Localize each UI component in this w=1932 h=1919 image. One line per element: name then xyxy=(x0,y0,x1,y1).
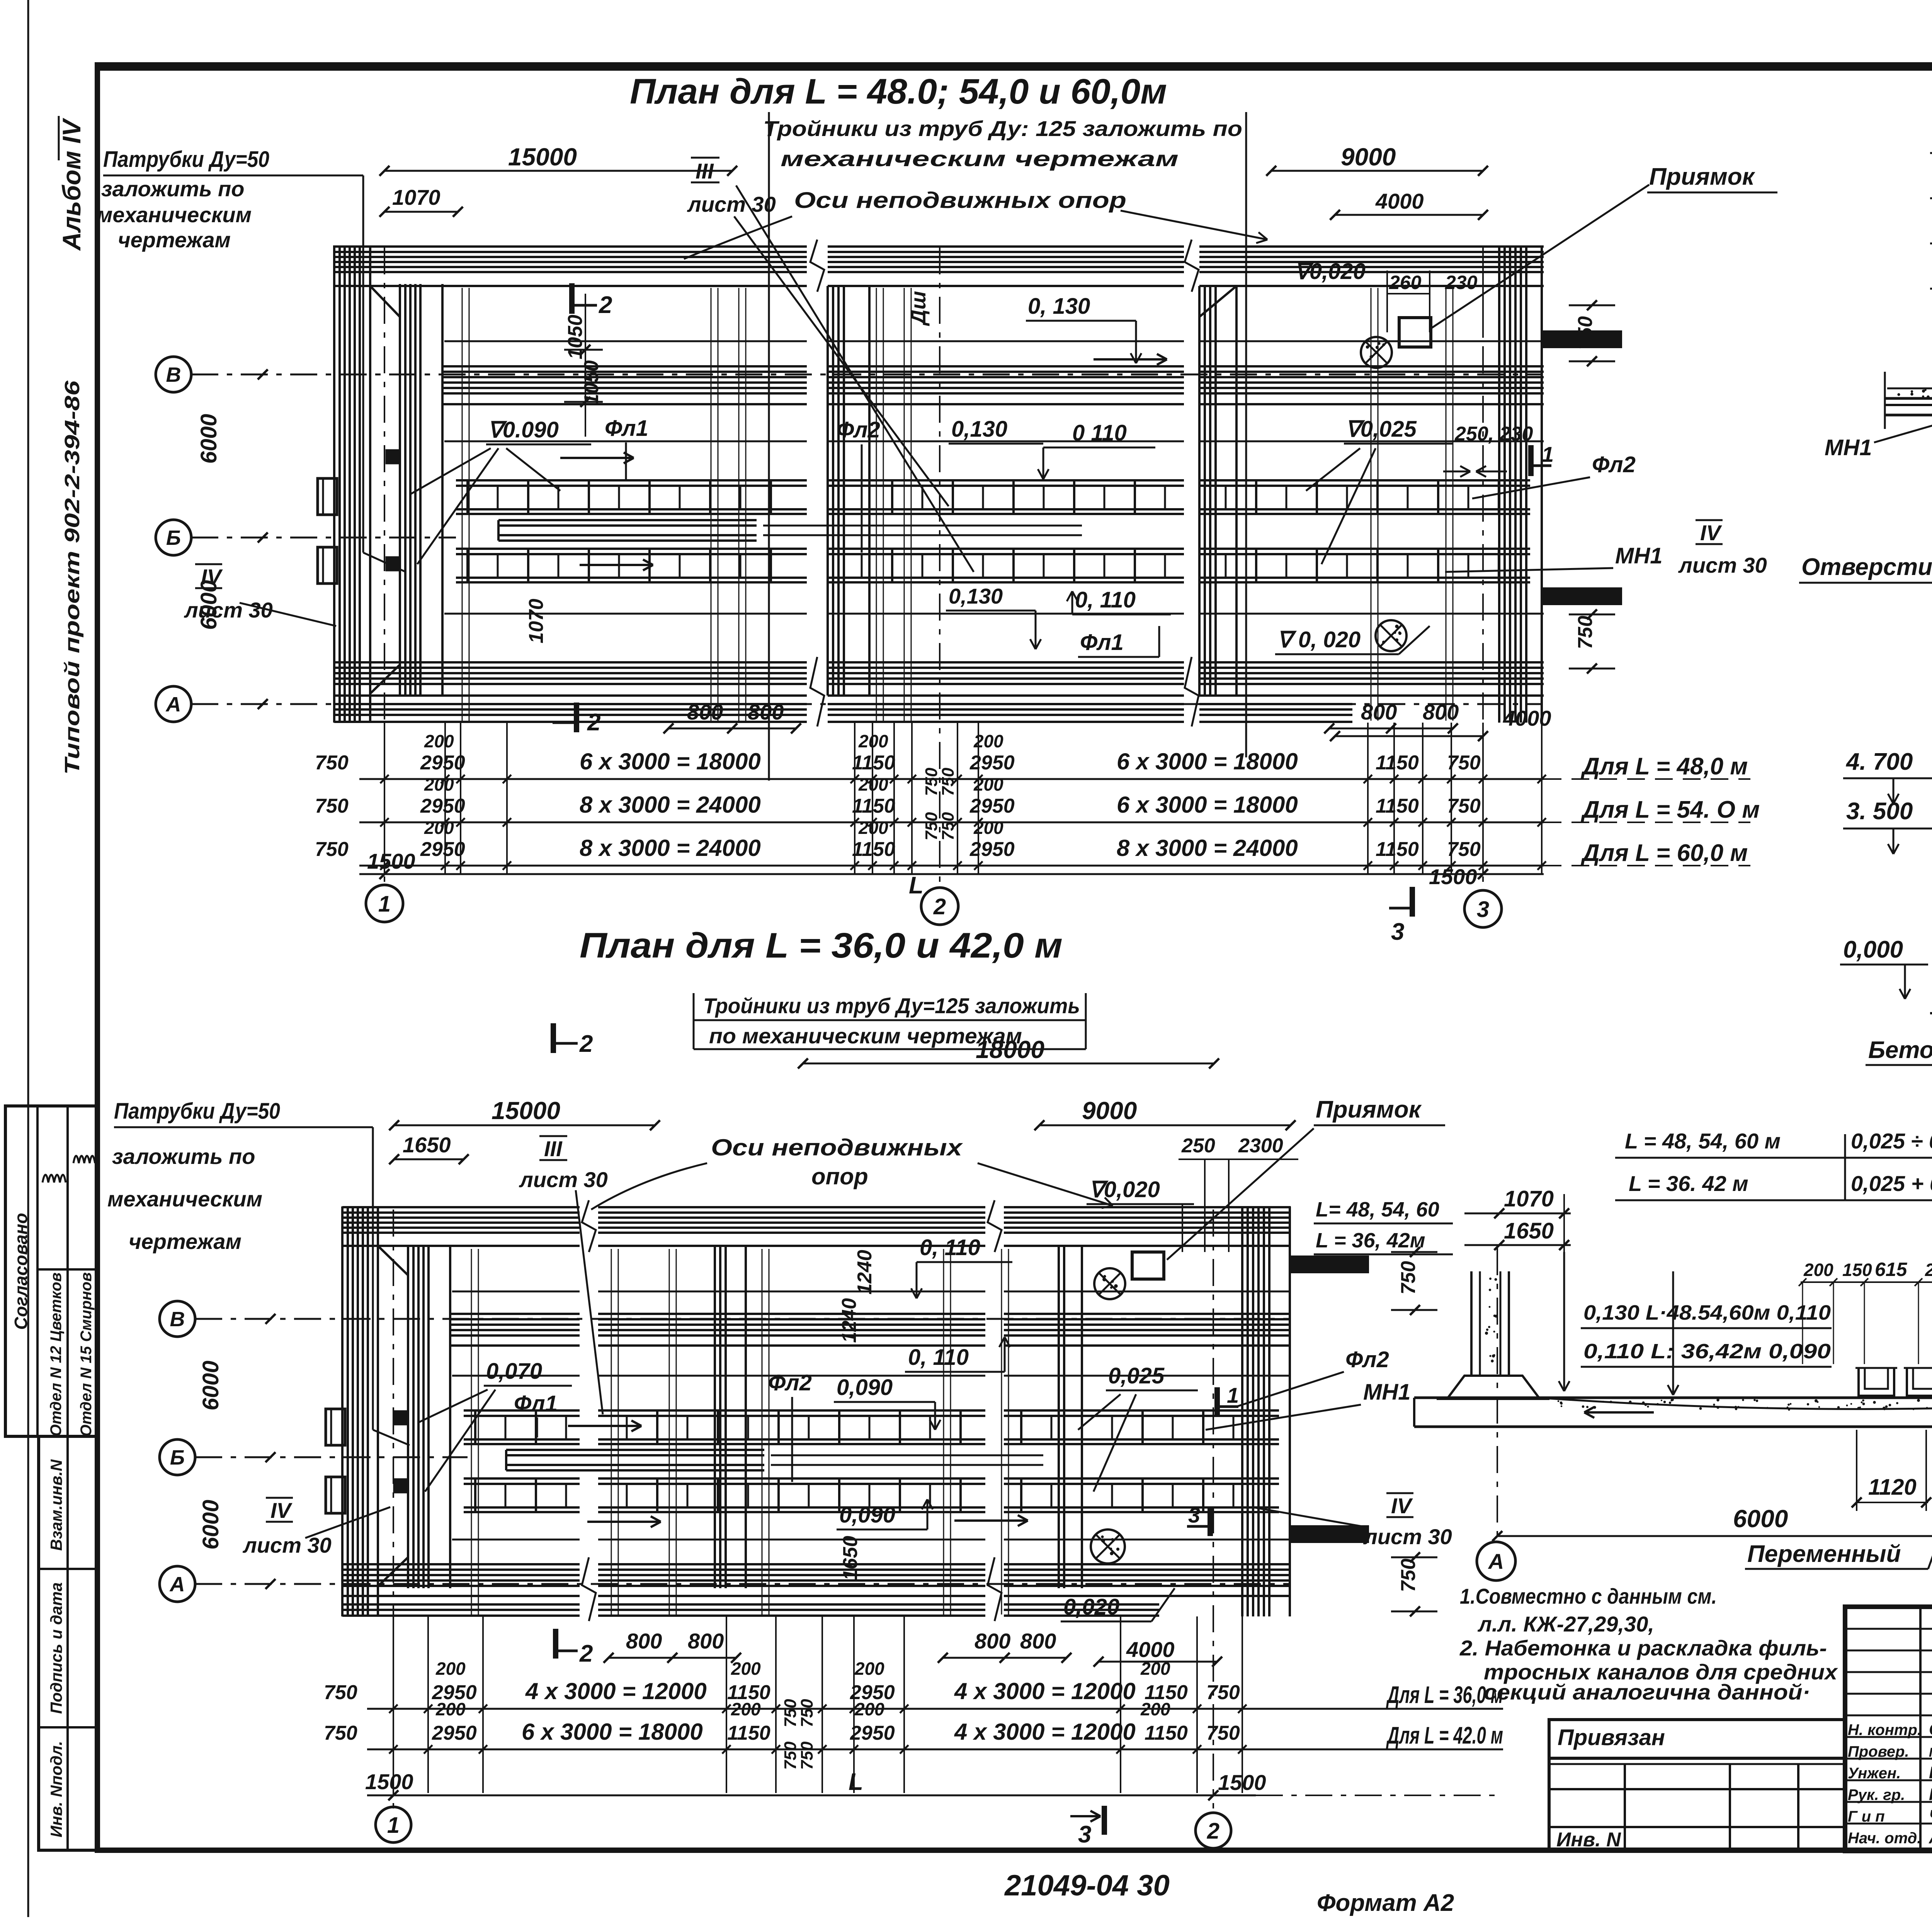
plan 1 channel row2 end flange left xyxy=(318,547,337,584)
svg-text:750: 750 xyxy=(781,1699,800,1727)
plan 1 left inner wall xyxy=(399,284,401,696)
svg-text:2: 2 xyxy=(1207,1819,1219,1844)
plan 1 corridor dash axis lower xyxy=(444,613,807,615)
svg-text:8 x 3000 = 24000: 8 x 3000 = 24000 xyxy=(580,792,761,818)
svg-text:1150: 1150 xyxy=(852,795,895,817)
svg-text:IV: IV xyxy=(1700,521,1723,545)
svg-text:250: 250 xyxy=(1181,1135,1215,1157)
svg-text:2. Набетонка и раскладка филь-: 2. Набетонка и раскладка филь- xyxy=(1459,1636,1827,1660)
svg-text:4 x 3000 = 12000: 4 x 3000 = 12000 xyxy=(954,1719,1136,1745)
plan 2 internal support verticals xyxy=(611,1249,612,1614)
svg-text:1150: 1150 xyxy=(852,752,895,774)
plan 2 chain row L=42 xyxy=(367,1749,1503,1751)
svg-text:Бетон М-150: Бетон М-150 xyxy=(1868,1037,1932,1063)
plan 2 flange circle top xyxy=(1094,1268,1125,1299)
plan 1 anchor square row1 xyxy=(386,450,400,463)
svg-text:615: 615 xyxy=(1875,1259,1908,1280)
svg-text:3. 500: 3. 500 xyxy=(1846,798,1913,825)
svg-text:2: 2 xyxy=(933,894,946,919)
svg-text:1150: 1150 xyxy=(1376,838,1419,861)
svg-text:200: 200 xyxy=(424,774,454,794)
plan 2 right inner bundle xyxy=(1058,1246,1060,1588)
plan 1 section mark 2 top xyxy=(569,283,575,314)
plan 2 axis lines xyxy=(195,1318,1291,1320)
svg-text:200: 200 xyxy=(1803,1260,1833,1280)
svg-text:2950: 2950 xyxy=(969,795,1015,817)
svg-text:Оси неподвижных опор: Оси неподвижных опор xyxy=(794,188,1126,213)
svg-text:6 x 3000 = 18000: 6 x 3000 = 18000 xyxy=(1117,749,1298,774)
svg-text:1: 1 xyxy=(1542,442,1554,466)
svg-text:9000: 9000 xyxy=(1082,1097,1137,1125)
svg-text:механическим: механическим xyxy=(107,1187,262,1211)
plan 1 aerator channel row 2 xyxy=(456,548,807,550)
plan 1 column circle 3 xyxy=(1464,890,1502,927)
plan 1 chain row L=54 xyxy=(359,822,1544,823)
svg-text:750: 750 xyxy=(315,795,349,817)
plan 2 central divider xyxy=(506,1449,764,1451)
svg-text:Тройники из труб Ду=125 заложи: Тройники из труб Ду=125 заложить xyxy=(703,994,1080,1018)
svg-text:200: 200 xyxy=(854,1699,884,1719)
svg-text:L: L xyxy=(849,1769,863,1795)
svg-text:Б: Б xyxy=(170,1446,185,1469)
svg-text:2: 2 xyxy=(587,709,600,736)
plan 2 dim 800 800 right xyxy=(943,1657,1066,1659)
plan 1 axis circle В xyxy=(156,357,191,392)
svg-text:Тройники из труб Ду: 125 зало: Тройники из труб Ду: 125 заложить по xyxy=(763,116,1242,141)
svg-text:Гарбуз: Гарбуз xyxy=(1929,1785,1932,1804)
svg-text:200: 200 xyxy=(973,818,1003,838)
svg-text:Н. контр.: Н. контр. xyxy=(1848,1722,1922,1739)
plan 1 wall band B xyxy=(442,365,807,367)
svg-text:L = 36, 42м: L = 36, 42м xyxy=(1316,1229,1425,1252)
plan 2 axis circle В xyxy=(160,1301,195,1337)
svg-text:1070: 1070 xyxy=(392,185,440,209)
svg-text:1650: 1650 xyxy=(839,1536,862,1580)
svg-text:750: 750 xyxy=(315,752,349,774)
svg-text:4000: 4000 xyxy=(1375,189,1424,213)
svg-text:200: 200 xyxy=(1140,1659,1170,1679)
svg-text:Для L = 48,0 м: Для L = 48,0 м xyxy=(1580,753,1748,780)
svg-text:1070: 1070 xyxy=(525,599,548,643)
svg-text:1240: 1240 xyxy=(854,1250,876,1295)
svg-text:Фл2: Фл2 xyxy=(1592,452,1636,477)
svg-text:1150: 1150 xyxy=(727,1722,770,1744)
plan 1 axis lines xyxy=(191,374,1542,376)
plan 2 column circle 2 xyxy=(1196,1813,1231,1848)
svg-text:0,025: 0,025 xyxy=(1108,1363,1165,1388)
plan 1 chain row L=48 xyxy=(359,778,1544,780)
svg-text:1500: 1500 xyxy=(1218,1770,1266,1795)
svg-text:заложить по: заложить по xyxy=(112,1144,255,1169)
svg-text:1240: 1240 xyxy=(838,1298,861,1343)
svg-text:200: 200 xyxy=(973,731,1003,751)
svg-text:200: 200 xyxy=(854,1659,884,1679)
svg-text:0,025 + 0,070: 0,025 + 0,070 xyxy=(1851,1171,1932,1196)
svg-text:по механическим чертежам: по механическим чертежам xyxy=(709,1024,1022,1048)
plan 1 priamok square xyxy=(1399,318,1431,347)
svg-text:Г и п: Г и п xyxy=(1848,1808,1885,1825)
svg-text:750: 750 xyxy=(324,1681,357,1704)
svg-text:800: 800 xyxy=(1423,700,1459,724)
svg-text:Патрубки Ду=50: Патрубки Ду=50 xyxy=(114,1099,280,1124)
plan 1 axis circle А xyxy=(156,686,191,722)
svg-text:Семенова: Семенова xyxy=(1929,1720,1932,1739)
svg-text:0,000: 0,000 xyxy=(1843,936,1903,963)
svg-text:6000: 6000 xyxy=(1733,1505,1788,1533)
lotok rows xyxy=(1930,152,1932,154)
svg-text:А: А xyxy=(1488,1549,1504,1574)
plan 1 left end wall xyxy=(333,245,335,723)
plan 2 overall L line xyxy=(367,1795,1256,1797)
plan 1 dim 1070 xyxy=(384,211,458,213)
plan 2 right end wall xyxy=(1241,1206,1243,1616)
svg-text:Фл2: Фл2 xyxy=(768,1370,812,1395)
svg-text:IV: IV xyxy=(201,565,223,589)
plan 2 break marks top xyxy=(582,1200,596,1252)
svg-text:2950: 2950 xyxy=(420,795,465,817)
svg-text:800: 800 xyxy=(975,1629,1010,1653)
plan 1 section mark 1 right xyxy=(1528,445,1534,476)
plan 1 chain row L=60 xyxy=(359,865,1544,867)
plan 2 inlet pipe bottom right xyxy=(1291,1526,1368,1542)
plan 2 section mark 1 right xyxy=(1214,1387,1220,1416)
plan 1 dim 15000 xyxy=(384,170,732,172)
svg-text:Инв. Nподл.: Инв. Nподл. xyxy=(47,1741,65,1837)
svg-text:IV: IV xyxy=(1391,1494,1413,1518)
svg-text:0,110 L: 36,42м 0,090: 0,110 L: 36,42м 0,090 xyxy=(1583,1340,1831,1363)
svg-text:лист 30: лист 30 xyxy=(184,598,273,622)
plan 1 dim 4000 right xyxy=(1335,735,1483,737)
sheet edge line xyxy=(27,0,29,1917)
svg-text:15000: 15000 xyxy=(508,143,577,171)
plan 2 middle wall bundle xyxy=(714,1246,716,1588)
svg-text:Провер.: Провер. xyxy=(1848,1743,1909,1760)
svg-text:Согласовано: Согласовано xyxy=(11,1213,31,1330)
svg-text:800: 800 xyxy=(748,700,784,724)
2-2 flow arrows xyxy=(1584,1411,1654,1414)
svg-text:800: 800 xyxy=(1020,1629,1056,1653)
svg-text:Фл1: Фл1 xyxy=(514,1391,558,1416)
svg-text:750: 750 xyxy=(922,812,941,840)
margin stamp strip xyxy=(39,1436,97,1850)
2-2 base slab xyxy=(1414,1397,1932,1399)
svg-text:Привязан: Привязан xyxy=(1558,1725,1665,1750)
plan 1 aerator channel row 1 xyxy=(456,479,807,481)
plan 1 corridor dash axis mid xyxy=(444,441,807,442)
svg-text:L = 48, 54, 60 м: L = 48, 54, 60 м xyxy=(1625,1129,1781,1153)
svg-text:МН1: МН1 xyxy=(1615,543,1662,568)
2-2 axis circle A xyxy=(1477,1542,1515,1580)
svg-text:1120: 1120 xyxy=(1868,1475,1917,1500)
svg-text:4 x 3000 = 12000: 4 x 3000 = 12000 xyxy=(954,1678,1136,1704)
svg-text:Рук. гр.: Рук. гр. xyxy=(1848,1786,1905,1803)
plan 2 priamok square xyxy=(1132,1252,1164,1279)
svg-text:3: 3 xyxy=(1391,919,1404,945)
svg-text:200: 200 xyxy=(1140,1699,1170,1719)
svg-text:2950: 2950 xyxy=(420,752,465,774)
svg-text:∇0.090: ∇0.090 xyxy=(488,417,559,442)
plan 1 top wall band xyxy=(334,245,807,248)
svg-text:лист 30: лист 30 xyxy=(242,1533,332,1557)
svg-text:200: 200 xyxy=(424,731,454,751)
svg-text:260: 260 xyxy=(1389,272,1422,293)
plan 1 right end wall xyxy=(1498,245,1500,723)
plan 1 corridor dash axis upper xyxy=(444,340,807,342)
svg-text:лист 30: лист 30 xyxy=(1363,1524,1452,1549)
svg-text:2950: 2950 xyxy=(969,838,1015,861)
svg-text:Для L = 54. О м: Для L = 54. О м xyxy=(1580,796,1760,823)
svg-text:2950: 2950 xyxy=(432,1722,477,1744)
svg-text:А: А xyxy=(165,693,181,716)
svg-text:750: 750 xyxy=(1447,795,1481,817)
plan 2 dim 1650 xyxy=(394,1159,464,1160)
plan 1 inlet pipe bottom right xyxy=(1544,589,1621,604)
plan 2 corridor dash lower xyxy=(452,1539,580,1541)
svg-text:4000: 4000 xyxy=(1503,706,1551,730)
plan 2 aerator channel row 2 xyxy=(464,1477,580,1480)
plan 2 left inner wall xyxy=(407,1246,409,1588)
svg-text:механическим чертежам: механическим чертежам xyxy=(781,146,1179,171)
plan 1 dim 800 800 right xyxy=(1329,728,1453,730)
svg-text:0,070: 0,070 xyxy=(486,1359,542,1384)
svg-text:1500: 1500 xyxy=(367,849,415,873)
plan 1 column circle 2 xyxy=(921,888,958,925)
plan 2 flange circle bottom xyxy=(1091,1529,1125,1563)
svg-text:0, 110: 0, 110 xyxy=(920,1235,980,1260)
svg-text:L= 48, 54, 60: L= 48, 54, 60 xyxy=(1316,1198,1439,1221)
plan 1 bottom wall band A xyxy=(334,661,807,663)
svg-text:200: 200 xyxy=(435,1699,466,1719)
svg-text:1150: 1150 xyxy=(1376,752,1419,774)
svg-text:15000: 15000 xyxy=(492,1097,560,1125)
plan 2 column circle 1 xyxy=(376,1807,411,1842)
svg-text:Типовой проект 902-2-394-86: Типовой проект 902-2-394-86 xyxy=(61,380,84,775)
2-2 axis lines xyxy=(1497,1248,1498,1542)
svg-text:2: 2 xyxy=(599,292,612,318)
svg-text:750: 750 xyxy=(798,1699,816,1727)
svg-text:∇0,020: ∇0,020 xyxy=(1089,1177,1160,1202)
svg-text:200: 200 xyxy=(858,774,888,794)
plan 1 right section left bundle xyxy=(1198,286,1201,696)
plan 1 break marks bottom xyxy=(810,657,824,726)
svg-text:150: 150 xyxy=(1842,1260,1872,1280)
svg-text:250, 230: 250, 230 xyxy=(1454,423,1533,445)
svg-text:Фл2: Фл2 xyxy=(1345,1347,1389,1372)
svg-text:Петропавловская: Петропавловская xyxy=(1929,1745,1932,1759)
plan 2 axis witness xyxy=(393,1210,394,1808)
svg-text:750: 750 xyxy=(939,767,957,796)
plan 1 inlet pipe top right xyxy=(1544,332,1621,347)
plan 2 chain row L=36 xyxy=(367,1708,1503,1710)
section 1-1 ground slab xyxy=(1885,397,1932,400)
svg-text:750: 750 xyxy=(315,838,349,861)
svg-text:750: 750 xyxy=(1397,1261,1420,1295)
svg-text:А: А xyxy=(169,1573,185,1596)
svg-text:заложить по: заложить по xyxy=(101,177,244,201)
svg-text:0,130: 0,130 xyxy=(951,417,1007,442)
svg-text:∇ 0, 020: ∇ 0, 020 xyxy=(1277,627,1361,652)
svg-text:6 x 3000 = 18000: 6 x 3000 = 18000 xyxy=(580,749,761,774)
plan 2 section mark 3 xyxy=(1207,1507,1213,1536)
svg-text:L = 36. 42 м: L = 36. 42 м xyxy=(1629,1171,1748,1196)
svg-text:Дш: Дш xyxy=(907,291,930,326)
svg-text:2300: 2300 xyxy=(1238,1135,1283,1157)
plan 1 axis circle Б xyxy=(156,520,191,555)
plan 2 dim 15000 xyxy=(394,1125,655,1126)
plan 1 middle wall bundle xyxy=(827,286,829,696)
plan 1 column circle 1 xyxy=(366,885,403,922)
svg-text:800: 800 xyxy=(688,1629,724,1653)
plan 2 inlet pipe top right xyxy=(1291,1257,1368,1272)
svg-text:750: 750 xyxy=(939,812,957,840)
svg-text:1150: 1150 xyxy=(1145,1722,1188,1744)
svg-text:Патрубки Ду=50: Патрубки Ду=50 xyxy=(103,147,269,172)
svg-text:200: 200 xyxy=(858,818,888,838)
svg-text:6000: 6000 xyxy=(198,1500,223,1550)
svg-text:6000: 6000 xyxy=(196,414,221,464)
svg-text:Цветкова: Цветкова xyxy=(1929,1763,1932,1782)
svg-text:Оси неподвижных: Оси неподвижных xyxy=(711,1135,963,1160)
svg-text:4 x 3000 = 12000: 4 x 3000 = 12000 xyxy=(525,1678,707,1704)
svg-text:1: 1 xyxy=(387,1813,400,1838)
svg-text:Чирков: Чирков xyxy=(1929,1807,1932,1825)
svg-text:0, 110: 0, 110 xyxy=(1075,587,1136,612)
svg-text:План для L = 36,0 и 42,0 м: План для L = 36,0 и 42,0 м xyxy=(580,926,1063,965)
svg-text:МН1: МН1 xyxy=(1825,435,1872,460)
plan 1 witness lines xyxy=(384,723,385,874)
plan 2 section mark 2 top xyxy=(551,1023,556,1053)
plan 1 channel row1 end flange left xyxy=(318,478,337,515)
plan 1 anchor square row2 xyxy=(386,557,400,570)
svg-text:∇0,025: ∇0,025 xyxy=(1345,417,1417,442)
svg-text:200: 200 xyxy=(424,818,454,838)
svg-text:3: 3 xyxy=(1477,897,1489,922)
svg-text:200: 200 xyxy=(435,1659,466,1679)
svg-text:IV: IV xyxy=(270,1498,293,1523)
svg-text:800: 800 xyxy=(1361,700,1397,724)
plan 1 flow arrows xyxy=(560,457,634,459)
plan 2 wall band B xyxy=(450,1313,580,1315)
svg-text:0, 130: 0, 130 xyxy=(1028,294,1090,319)
title block frame xyxy=(1845,1607,1932,1851)
svg-text:Отдел N 15 Смирнов: Отдел N 15 Смирнов xyxy=(78,1272,95,1436)
title block left grid xyxy=(1919,1607,1922,1851)
plan 2 corridor dash mid xyxy=(452,1375,580,1377)
svg-text:1150: 1150 xyxy=(1376,795,1419,817)
plan 1 axis witness dashdot xyxy=(384,247,385,885)
plan 1 dim 4000 xyxy=(1335,214,1483,216)
svg-text:лист 30: лист 30 xyxy=(519,1167,608,1192)
svg-text:2: 2 xyxy=(579,1640,593,1667)
svg-text:0,130 L·48.54,60м 0,110: 0,130 L·48.54,60м 0,110 xyxy=(1583,1301,1831,1324)
svg-text:L: L xyxy=(909,872,923,899)
svg-text:Альтшумер: Альтшумер xyxy=(1929,1828,1932,1847)
plan 1 dim 9000 xyxy=(1271,170,1483,172)
svg-text:Отдел N 12 Цветков: Отдел N 12 Цветков xyxy=(48,1273,65,1436)
svg-text:8 x 3000 = 24000: 8 x 3000 = 24000 xyxy=(580,835,761,861)
svg-text:3: 3 xyxy=(1078,1821,1091,1848)
plan 2 channel row1 flange xyxy=(326,1409,345,1445)
svg-text:750: 750 xyxy=(1206,1681,1240,1704)
plan 1 flange circle top xyxy=(1361,337,1392,368)
plan 2 flow arrows xyxy=(568,1425,641,1427)
svg-text:205: 205 xyxy=(1925,1260,1932,1280)
svg-text:∇0,020: ∇0,020 xyxy=(1294,259,1366,284)
svg-text:1500: 1500 xyxy=(1429,864,1477,889)
svg-text:1650: 1650 xyxy=(403,1133,451,1157)
svg-text:6 x 3000 = 18000: 6 x 3000 = 18000 xyxy=(522,1719,703,1745)
svg-text:2: 2 xyxy=(579,1031,593,1057)
svg-text:л.л. КЖ-27,29,30,: л.л. КЖ-27,29,30, xyxy=(1477,1612,1654,1636)
plan 2 anchor square row2 xyxy=(394,1479,407,1492)
svg-text:750: 750 xyxy=(1447,838,1481,861)
svg-text:6 x 3000 = 18000: 6 x 3000 = 18000 xyxy=(1117,792,1298,818)
svg-text:750: 750 xyxy=(922,767,941,796)
plan 2 section mark 3 bottom xyxy=(1102,1806,1107,1835)
svg-text:0 110: 0 110 xyxy=(1072,420,1127,446)
svg-text:200: 200 xyxy=(973,774,1003,794)
svg-text:Инв. N: Инв. N xyxy=(1556,1829,1621,1851)
svg-text:4. 700: 4. 700 xyxy=(1845,749,1913,775)
svg-text:750: 750 xyxy=(1206,1722,1240,1744)
svg-text:опор: опор xyxy=(811,1164,868,1189)
plan 2 bottom wall band A xyxy=(342,1563,580,1565)
svg-text:750: 750 xyxy=(1397,1558,1420,1592)
svg-text:750: 750 xyxy=(1574,316,1597,350)
svg-text:0,090: 0,090 xyxy=(839,1502,895,1528)
plan 2 axis circle Б xyxy=(160,1439,195,1475)
svg-text:1150: 1150 xyxy=(852,838,895,861)
svg-text:III: III xyxy=(696,159,714,183)
svg-text:750: 750 xyxy=(781,1741,800,1770)
svg-text:750: 750 xyxy=(798,1741,816,1770)
svg-text:18000: 18000 xyxy=(976,1036,1044,1063)
plan 2 axis circle А xyxy=(160,1566,195,1602)
svg-text:0,090: 0,090 xyxy=(837,1375,893,1400)
svg-text:лист 30: лист 30 xyxy=(1678,553,1767,577)
svg-text:800: 800 xyxy=(626,1629,662,1653)
svg-text:Фл2: Фл2 xyxy=(837,417,880,442)
svg-text:21049-04 30: 21049-04 30 xyxy=(1004,1869,1170,1902)
svg-text:III: III xyxy=(544,1136,563,1161)
svg-text:Б: Б xyxy=(166,526,181,550)
svg-text:Подпись и дата: Подпись и дата xyxy=(47,1582,65,1714)
svg-text:секций аналогична данной·: секций аналогична данной· xyxy=(1484,1680,1810,1704)
plan 1 flange circle bottom xyxy=(1376,620,1406,651)
svg-text:Альбом IV: Альбом IV xyxy=(57,117,86,251)
plan 2 dim 800 800 left xyxy=(609,1657,736,1659)
plan 2 dim 18000 xyxy=(803,1063,1214,1065)
svg-text:3: 3 xyxy=(1188,1503,1200,1527)
svg-text:200: 200 xyxy=(731,1659,761,1679)
svg-text:1070: 1070 xyxy=(1504,1186,1554,1211)
plan 1 overall L line xyxy=(359,873,1544,875)
svg-text:1050: 1050 xyxy=(580,360,603,405)
plan 1 break marks top xyxy=(810,240,824,292)
svg-text:1: 1 xyxy=(1227,1383,1239,1407)
svg-text:Приямок: Приямок xyxy=(1316,1096,1422,1123)
plan 1 internal support verticals xyxy=(711,288,712,721)
2-2 channel group 1 xyxy=(1859,1368,1894,1396)
privyazan table xyxy=(1549,1720,1845,1851)
svg-text:В: В xyxy=(170,1308,185,1331)
svg-text:0,020: 0,020 xyxy=(1063,1594,1119,1620)
plan 2 anchor square row1 xyxy=(394,1411,407,1424)
svg-text:800: 800 xyxy=(687,700,723,724)
plan 1 dim 800 800 left xyxy=(668,728,796,730)
svg-text:План для L = 48.0; 54,0 и 60,: План для L = 48.0; 54,0 и 60,0м xyxy=(630,72,1167,111)
svg-text:750: 750 xyxy=(1447,752,1481,774)
